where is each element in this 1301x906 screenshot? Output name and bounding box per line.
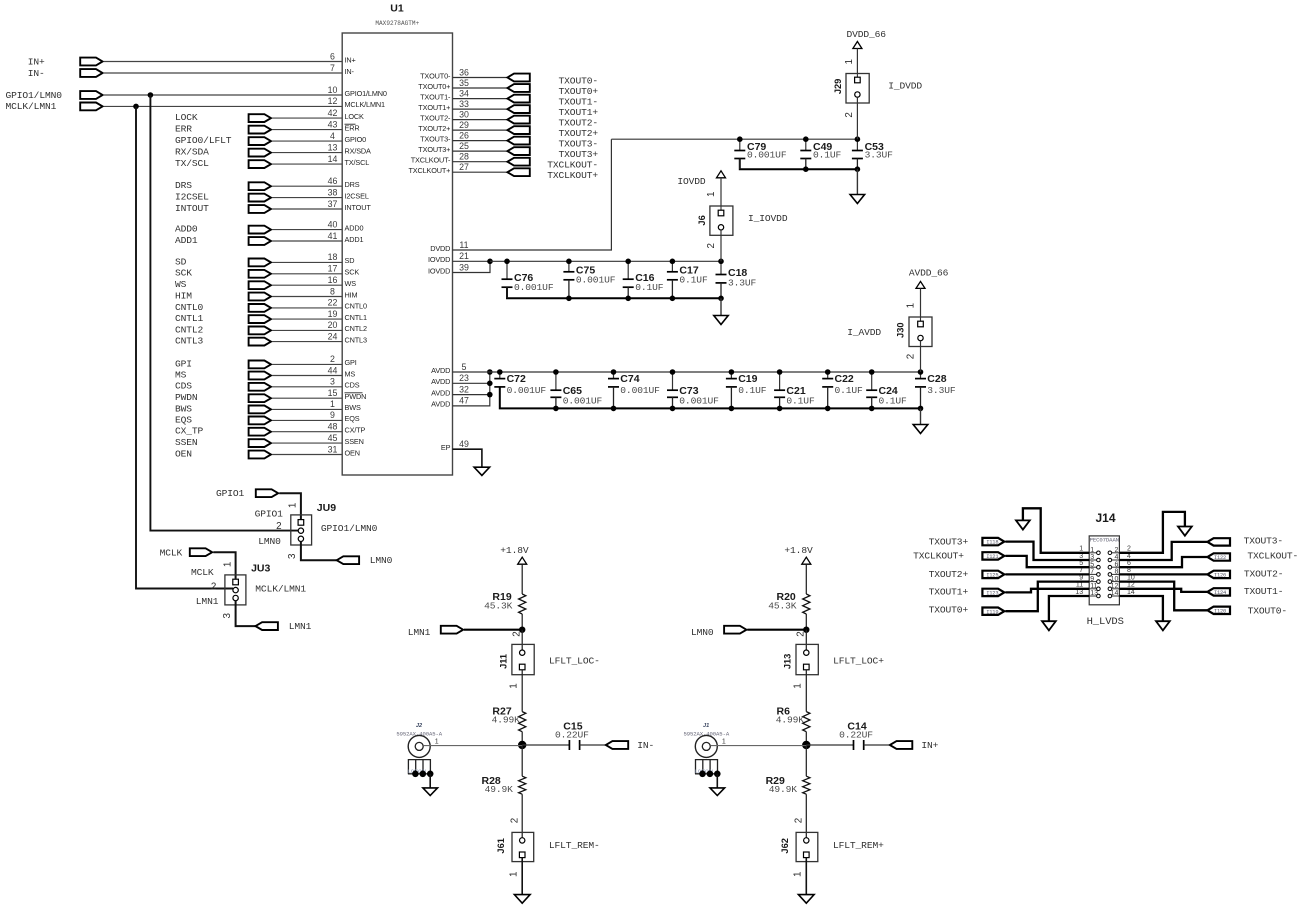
junction AVDD bottom rail (869, 406, 875, 412)
svg-text:J1: J1 (703, 723, 709, 729)
wire IN+ to U1 (104, 61, 343, 63)
wire J1 pin 1 to node (710, 745, 806, 747)
wire CDS to U1 (272, 386, 342, 388)
net flag TXOUT2- (1207, 571, 1230, 578)
net flag TXOUT2+ alias I125 (982, 571, 1004, 578)
J14 pin 6 stub (1112, 566, 1120, 568)
J2 shield bracket (408, 760, 430, 774)
svg-text:TXOUT3+: TXOUT3+ (559, 149, 599, 160)
wire U1 pin 30 TXOUT2- (453, 119, 508, 121)
svg-text:TXOUT1-: TXOUT1- (559, 96, 598, 107)
svg-text:35: 35 (459, 78, 469, 88)
J14 pin 14 stub (1112, 595, 1120, 597)
svg-text:2: 2 (1127, 546, 1131, 553)
junction AVDD pin23 (487, 381, 493, 387)
svg-text:12: 12 (328, 96, 338, 106)
wire J61 pin 1 to ground (521, 858, 523, 895)
svg-text:TXOUT3+: TXOUT3+ (418, 145, 450, 154)
svg-text:GPIO1: GPIO1 (216, 488, 245, 499)
net flag GPI (249, 361, 271, 369)
svg-text:OEN: OEN (175, 448, 192, 459)
svg-text:2: 2 (794, 818, 805, 823)
wire IOVDD rail (490, 260, 721, 262)
wire DVDD from U1 pin 11 (453, 139, 612, 250)
net flag TXOUT2+ (507, 126, 529, 134)
svg-text:37: 37 (328, 199, 338, 209)
svg-text:45.3K: 45.3K (484, 600, 513, 611)
svg-text:43: 43 (328, 119, 338, 129)
wire J2 pin 1 to node (423, 745, 522, 747)
svg-text:GPI: GPI (175, 358, 192, 369)
svg-text:TXCLKOUT-: TXCLKOUT- (1247, 551, 1298, 562)
svg-text:0.1UF: 0.1UF (786, 396, 815, 407)
svg-text:INTOUT: INTOUT (345, 203, 372, 212)
junction LMN1 (519, 627, 525, 633)
net flag LMN0 (724, 626, 746, 634)
svg-text:1: 1 (706, 192, 717, 197)
svg-text:14: 14 (328, 154, 338, 164)
svg-text:J62: J62 (780, 838, 790, 854)
svg-text:LFLT_REM+: LFLT_REM+ (833, 840, 884, 851)
net flag TXOUT0- (507, 74, 529, 82)
capacitor C73 (672, 372, 674, 390)
wire U1 pin 29 TXOUT2+ (453, 129, 508, 131)
svg-text:AVDD: AVDD (431, 400, 450, 409)
net flag CNTL1 (249, 315, 271, 323)
svg-text:I_IOVDD: I_IOVDD (748, 213, 788, 224)
svg-text:11: 11 (1090, 583, 1097, 590)
capacitor C74 (613, 372, 615, 379)
jumper J29 body (846, 74, 869, 104)
svg-text:GPI: GPI (345, 358, 357, 367)
junction LMN0 (803, 627, 809, 633)
svg-text:2: 2 (844, 112, 855, 117)
net flag IN- (80, 69, 102, 77)
svg-text:1: 1 (330, 399, 335, 409)
capacitor C76 (506, 261, 508, 279)
svg-text:BWS: BWS (345, 403, 361, 412)
svg-text:3: 3 (330, 377, 335, 387)
net flag GPIO0/LFLT (249, 137, 271, 145)
svg-text:15: 15 (328, 388, 338, 398)
svg-text:13: 13 (328, 142, 338, 152)
svg-text:CNTL0: CNTL0 (175, 302, 204, 313)
wire node to capacitor C14 (806, 744, 853, 746)
svg-text:I2CSEL: I2CSEL (345, 191, 369, 200)
junction C24 top (869, 369, 875, 375)
net flag TXOUT0+ alias I119 (982, 608, 1004, 615)
svg-text:0.001UF: 0.001UF (679, 396, 719, 407)
wire IOVDD pin 21 to rail (453, 260, 491, 262)
net flag TXOUT3- (1207, 538, 1230, 545)
svg-text:TXCLKOUT+: TXCLKOUT+ (547, 170, 598, 181)
junction C65 top (553, 369, 559, 375)
wire IN- to U1 (104, 72, 343, 74)
svg-text:MCLK: MCLK (160, 547, 183, 558)
net flag IN+ (80, 58, 102, 66)
svg-text:MCLK: MCLK (191, 567, 214, 578)
wire ERR to U1 (272, 129, 342, 131)
svg-text:0.1UF: 0.1UF (835, 385, 864, 396)
svg-text:IOVDD: IOVDD (428, 266, 450, 275)
svg-text:0.001UF: 0.001UF (563, 396, 603, 407)
junction C74 top (611, 369, 617, 375)
wire U1 pin 35 TXOUT0+ (453, 87, 508, 89)
svg-text:I123: I123 (986, 591, 998, 597)
wire DRS to U1 (272, 185, 342, 187)
svg-text:TXOUT0-: TXOUT0- (559, 75, 598, 86)
svg-text:JU9: JU9 (317, 502, 336, 514)
svg-text:CNTL3: CNTL3 (175, 336, 204, 347)
junction AVDD bottom rail (670, 406, 676, 412)
svg-text:EP: EP (441, 443, 451, 452)
wire U1 pin 26 TXOUT3- (453, 140, 508, 142)
svg-text:45.3K: 45.3K (768, 600, 797, 611)
svg-text:SD: SD (175, 256, 187, 267)
svg-text:2: 2 (906, 354, 917, 359)
wire TXOUT2- to J14 (1119, 573, 1207, 575)
svg-text:2: 2 (795, 631, 806, 636)
J14 pin 2 stub (1112, 552, 1120, 554)
svg-text:J29: J29 (833, 79, 843, 95)
wire RX/SDA to U1 (272, 152, 342, 154)
wire LOCK to U1 (272, 117, 342, 119)
svg-text:8: 8 (1114, 569, 1118, 576)
wire CNTL2 to U1 (272, 329, 342, 331)
net flag TXOUT1+ alias I123 (982, 589, 1004, 596)
wire U1 pin 33 TXOUT1+ (453, 108, 508, 110)
svg-text:CNTL3: CNTL3 (345, 335, 367, 344)
svg-text:SSEN: SSEN (175, 437, 198, 448)
junction C73 top (670, 369, 676, 375)
svg-text:I2CSEL: I2CSEL (175, 192, 209, 203)
J14 pin 3 stub (1089, 559, 1096, 561)
wire J14 pin 1 to ground (1023, 508, 1089, 553)
svg-text:30: 30 (459, 109, 469, 119)
net flag INTOUT (249, 205, 271, 213)
svg-text:10: 10 (328, 85, 338, 95)
net flag TXOUT2- (507, 116, 529, 124)
junction IOVDD pins (487, 259, 493, 265)
wire TXOUT3- to J14 (1119, 542, 1207, 560)
svg-text:2: 2 (330, 354, 335, 364)
svg-text:4: 4 (330, 131, 335, 141)
net flag LMN1 (441, 626, 463, 634)
capacitor C24 (871, 372, 873, 390)
svg-text:TXCLKOUT-: TXCLKOUT- (411, 156, 451, 165)
wire PWDN to U1 (272, 397, 342, 399)
junction AVDD pin32 (487, 392, 493, 398)
ground at J14 pin 1 (1016, 520, 1030, 529)
svg-text:49: 49 (459, 439, 469, 449)
net flag CDS (249, 383, 271, 391)
svg-text:0.1UF: 0.1UF (879, 396, 908, 407)
junction C49 top (803, 136, 809, 142)
wire C15 to IN- flag (580, 744, 606, 746)
J14 pin 1 stub (1089, 552, 1096, 554)
svg-text:LMN1: LMN1 (408, 627, 431, 638)
svg-text:CNTL2: CNTL2 (345, 324, 367, 333)
jumper J11 body (512, 644, 534, 674)
wire BWS to U1 (272, 408, 342, 410)
wire TXOUT2+ to J14 (1005, 573, 1089, 575)
net flag CNTL0 (249, 304, 271, 312)
wire CX_TP to U1 (272, 431, 342, 433)
wire TXOUT3+ to J14 (1005, 542, 1089, 560)
svg-text:7: 7 (330, 63, 335, 73)
svg-text:40: 40 (328, 219, 338, 229)
jumper J62 body (796, 832, 818, 861)
ground below J61 (514, 895, 530, 904)
wire SD to U1 (272, 261, 342, 263)
svg-text:J14: J14 (1095, 511, 1115, 525)
wire HIM to U1 (272, 296, 342, 298)
junction IOVDD bottom rail (670, 296, 676, 302)
wire INTOUT to U1 (272, 208, 342, 210)
net flag TXOUT0- (1207, 607, 1230, 614)
svg-text:TXOUT3-: TXOUT3- (559, 138, 598, 149)
J14 pin 10 stub (1112, 581, 1120, 583)
svg-text:IN-: IN- (345, 67, 355, 76)
svg-text:LOCK: LOCK (175, 112, 198, 123)
svg-text:TXOUT3-: TXOUT3- (420, 134, 451, 143)
svg-text:J61: J61 (496, 838, 506, 854)
svg-text:22: 22 (328, 298, 338, 308)
svg-text:+1.8V: +1.8V (500, 545, 529, 556)
net flag TXOUT3+ alias I118 (982, 538, 1004, 545)
svg-text:TXCLKOUT+: TXCLKOUT+ (913, 551, 964, 562)
capacitor C22 (827, 372, 829, 379)
connector J14 body (1089, 536, 1119, 605)
svg-text:26: 26 (459, 130, 469, 140)
svg-text:CX/TP: CX/TP (345, 426, 366, 435)
svg-text:DVDD: DVDD (430, 244, 450, 253)
svg-text:GPIO0: GPIO0 (345, 135, 367, 144)
coax connector J2 body (408, 735, 430, 757)
svg-text:20: 20 (328, 320, 338, 330)
svg-text:IN+: IN+ (28, 56, 45, 67)
svg-text:PWDN: PWDN (175, 392, 198, 403)
junction C79 top (737, 136, 743, 142)
svg-text:5: 5 (462, 362, 467, 372)
junction C53 top (855, 136, 861, 142)
J14 pin 9 stub (1089, 581, 1096, 583)
capacitor C79 (739, 139, 741, 150)
J14 pin 7 stub (1089, 573, 1096, 575)
svg-text:0.22UF: 0.22UF (839, 730, 873, 741)
J14 pin 11 stub (1089, 588, 1096, 590)
svg-text:TX/SCL: TX/SCL (345, 158, 370, 167)
junction AVDD bottom rail (611, 406, 617, 412)
svg-text:25: 25 (459, 141, 469, 151)
svg-text:CNTL1: CNTL1 (345, 313, 367, 322)
capacitor C21 (779, 372, 781, 390)
svg-text:RX/SDA: RX/SDA (175, 147, 209, 158)
svg-text:3.3UF: 3.3UF (927, 385, 956, 396)
svg-text:INTOUT: INTOUT (175, 203, 209, 214)
svg-text:TXOUT2-: TXOUT2- (559, 117, 598, 128)
wire C14 to IN+ flag (864, 744, 890, 746)
svg-text:J30: J30 (895, 322, 905, 338)
svg-text:I_DVDD: I_DVDD (888, 80, 922, 91)
IC U1 MAX9278AGTM+ body (342, 33, 452, 475)
svg-text:4: 4 (1114, 554, 1118, 561)
net flag SD (249, 259, 271, 267)
junction DVDD bottom rail (803, 166, 809, 172)
net flag IN- (606, 741, 628, 749)
svg-text:0.001UF: 0.001UF (507, 385, 547, 396)
ground below J2 (423, 788, 438, 796)
svg-text:HIM: HIM (345, 290, 358, 299)
svg-text:IOVDD: IOVDD (428, 255, 450, 264)
jumper J6 body (710, 206, 733, 235)
svg-text:LFLT_LOC+: LFLT_LOC+ (833, 655, 884, 666)
net flag TXOUT3+ (507, 147, 529, 155)
svg-text:24: 24 (328, 331, 338, 341)
wire MCLK to JU3 pin 1 (213, 552, 235, 579)
svg-text:LMN0: LMN0 (691, 627, 714, 638)
wire MCLK/LMN1 vertical to JU3 pin 2 (136, 106, 233, 588)
svg-text:TXCLKOUT+: TXCLKOUT+ (408, 166, 450, 175)
net flag SCK (249, 270, 271, 278)
wire ADD0 to U1 (272, 229, 342, 231)
capacitor C15 series (568, 740, 570, 750)
net flag SSEN (249, 439, 271, 447)
ground at J14 pin 14 (1156, 621, 1170, 630)
svg-text:WS: WS (345, 279, 357, 288)
svg-text:+1.8V: +1.8V (784, 545, 813, 556)
svg-text:C72: C72 (507, 373, 526, 385)
wire U1 pin 36 TXOUT0- (453, 77, 508, 79)
svg-text:3: 3 (222, 612, 233, 618)
svg-text:2: 2 (511, 631, 522, 636)
svg-text:GPIO0/LFLT: GPIO0/LFLT (175, 135, 232, 146)
svg-text:GPIO1/LMN0: GPIO1/LMN0 (345, 89, 387, 98)
svg-text:H_LVDS: H_LVDS (1087, 616, 1124, 628)
junction IOVDD bottom rail (718, 296, 724, 302)
svg-text:I125: I125 (986, 573, 998, 579)
svg-text:7: 7 (1090, 569, 1094, 576)
resistor R19 (519, 594, 526, 614)
wire IOVDD pin 39 to rail (453, 261, 491, 272)
svg-text:IN+: IN+ (921, 740, 938, 751)
svg-text:1: 1 (508, 683, 519, 688)
svg-text:HIM: HIM (175, 290, 192, 301)
jumper JU9 body (291, 515, 312, 545)
wire JU3 pin 3 to LMN1 flag (236, 601, 256, 626)
svg-text:IN-: IN- (28, 68, 45, 79)
svg-text:EQS: EQS (175, 414, 192, 425)
net flag WS (249, 281, 271, 289)
svg-text:J13: J13 (783, 654, 793, 670)
capacitor C53 (856, 139, 858, 150)
svg-text:PEC07DAAN: PEC07DAAN (1090, 536, 1119, 543)
junction IOVDD bottom rail (566, 296, 572, 302)
resistor R28 (521, 745, 523, 776)
svg-text:6: 6 (1114, 561, 1118, 568)
junction C19 top (729, 369, 735, 375)
net flag LMN0 (337, 556, 359, 564)
net flag TXOUT1- (1207, 588, 1230, 595)
ground below J1 (710, 788, 725, 796)
junction main node (802, 741, 810, 749)
wire AVDD cap bottom rail (500, 387, 921, 408)
svg-text:17: 17 (328, 264, 338, 274)
capacitor C75 (568, 261, 570, 272)
svg-text:3.3UF: 3.3UF (728, 278, 757, 289)
svg-text:TXOUT2+: TXOUT2+ (929, 569, 969, 580)
svg-text:0.1UF: 0.1UF (679, 274, 708, 285)
junction C16 top (625, 259, 631, 265)
wire U1 pin 34 TXOUT1- (453, 98, 508, 100)
net flag CNTL2 (249, 327, 271, 335)
wire DVDD rail (611, 138, 857, 140)
svg-text:36: 36 (459, 67, 469, 77)
ground below J62 (798, 895, 814, 904)
junction IOVDD bottom rail (625, 296, 631, 302)
svg-text:4.99K: 4.99K (492, 715, 521, 726)
resistor R29 (805, 745, 807, 776)
svg-text:3.3UF: 3.3UF (865, 149, 894, 160)
junction C75 top (566, 259, 572, 265)
svg-text:11: 11 (459, 240, 468, 250)
svg-text:PWDN: PWDN (345, 392, 367, 401)
wire IOVDD cap bottom rail (507, 287, 721, 298)
wire OEN to U1 (272, 454, 342, 456)
svg-text:ADD0: ADD0 (345, 223, 364, 232)
svg-text:3: 3 (1090, 554, 1094, 561)
svg-text:27: 27 (459, 162, 469, 172)
svg-text:14: 14 (1111, 590, 1119, 597)
svg-text:TXOUT3+: TXOUT3+ (929, 536, 969, 547)
net flag TXCLKOUT+ (507, 168, 529, 176)
svg-text:9: 9 (1090, 576, 1094, 583)
ground below C18 (720, 298, 722, 315)
svg-text:J6: J6 (697, 215, 707, 225)
junction C76 top (504, 259, 510, 265)
svg-text:1: 1 (844, 59, 855, 64)
svg-text:C74: C74 (620, 373, 639, 385)
svg-text:3: 3 (287, 553, 298, 559)
net flag RX/SDA (249, 149, 271, 157)
jumper J13 body (796, 644, 818, 674)
net flag ADD1 (249, 237, 271, 245)
wire CNTL0 to U1 (272, 307, 342, 309)
junction C21 top (777, 369, 783, 375)
svg-text:LMN0: LMN0 (258, 536, 281, 547)
wire CNTL3 to U1 (272, 341, 342, 343)
svg-text:10: 10 (1111, 576, 1119, 583)
svg-text:0.1UF: 0.1UF (813, 149, 842, 160)
svg-text:CNTL2: CNTL2 (175, 324, 204, 335)
wire MS to U1 (272, 375, 342, 377)
svg-text:16: 16 (328, 275, 338, 285)
svg-text:21: 21 (459, 251, 469, 261)
svg-text:MCLK/LMN1: MCLK/LMN1 (345, 100, 386, 109)
svg-text:I118: I118 (986, 540, 998, 546)
J1 shield junction dots (699, 771, 706, 778)
net flag MCLK/LMN1 (80, 103, 102, 111)
wire TXOUT1- to J14 (1119, 589, 1207, 592)
jumper J30 body (909, 317, 932, 347)
wire ADD1 to U1 (272, 240, 342, 242)
svg-text:1: 1 (288, 503, 299, 508)
svg-text:IOVDD: IOVDD (677, 176, 706, 187)
svg-text:AVDD: AVDD (431, 388, 450, 397)
power symbol +1.8V (802, 557, 811, 564)
net flag TXCLKOUT- (507, 158, 529, 166)
junction C28 top (918, 369, 924, 375)
